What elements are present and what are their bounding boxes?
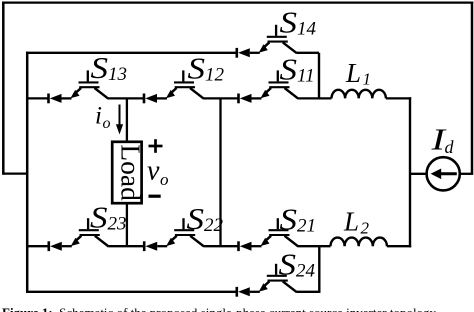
svg-text:L: L — [345, 58, 361, 88]
switch S12 — [144, 70, 204, 103]
wire: S14 drop to row 1 — [318, 53, 320, 100]
inductor L1 — [332, 90, 386, 99]
svg-text:i: i — [95, 103, 102, 130]
switch S13 — [49, 70, 109, 103]
inductor L2 — [331, 238, 387, 247]
wire: load top drop — [126, 98, 128, 141]
svg-text:13: 13 — [108, 64, 127, 85]
wire: middle vertical bus — [219, 98, 221, 246]
current source arrow — [431, 169, 457, 180]
wire: right outer vertical — [471, 2, 474, 174]
io arrow — [116, 105, 123, 135]
wire: S24 collector to corner — [296, 291, 319, 293]
switch S14 — [237, 25, 297, 58]
svg-text:Load: Load — [115, 144, 146, 201]
wire: top outer rail — [2, 1, 473, 3]
svg-text:2: 2 — [361, 219, 370, 238]
wire: L1 to right corner — [386, 97, 411, 99]
current source Id circle — [427, 157, 460, 190]
plus sign — [149, 139, 163, 153]
wire: S14 feed rail — [26, 52, 237, 54]
svg-text:S: S — [91, 50, 109, 85]
svg-text:S: S — [90, 200, 108, 235]
switch S21 — [239, 218, 299, 251]
switch S22 — [144, 218, 204, 251]
wire: left outer vertical — [2, 2, 5, 175]
label L1 — [345, 58, 371, 89]
svg-text:S: S — [280, 52, 298, 87]
wire: row2 S23 to S22 — [108, 245, 144, 247]
svg-text:S: S — [279, 247, 297, 282]
svg-text:14: 14 — [297, 19, 317, 40]
wire: L2 to right corner — [387, 245, 411, 247]
wire: S24 riser to row 2 — [318, 245, 320, 293]
wire: row1 S11 to L1 — [298, 97, 332, 99]
svg-text:d: d — [445, 137, 455, 157]
minus sign — [149, 195, 161, 198]
label L2 — [343, 207, 370, 238]
svg-text:21: 21 — [297, 216, 316, 237]
wire: row2 S21 to L2 — [298, 245, 331, 247]
svg-text:o: o — [103, 115, 111, 132]
label S23 — [90, 200, 127, 235]
load box — [112, 142, 141, 203]
wire: row1 S13 to S12 — [108, 97, 144, 99]
wire: right mid vertical (L1/L2/Id node) — [409, 97, 411, 247]
label Id — [430, 122, 454, 157]
svg-text:22: 22 — [204, 215, 224, 236]
wire: row2 S22 to S21 — [204, 245, 239, 247]
wire: row1 S12 to S11 — [204, 97, 239, 99]
switch S11 — [239, 70, 299, 103]
svg-text:11: 11 — [297, 66, 315, 87]
svg-text:23: 23 — [108, 214, 127, 235]
wire: row1 bus to S13 — [26, 97, 49, 99]
wire: Id right lead — [460, 173, 473, 175]
svg-text:24: 24 — [296, 261, 316, 282]
label io — [95, 103, 111, 133]
wire: row2 bus to S23 — [26, 245, 49, 247]
svg-text:12: 12 — [205, 65, 225, 86]
svg-text:L: L — [343, 207, 359, 237]
svg-text:S: S — [280, 202, 298, 237]
label S21 — [280, 202, 317, 237]
svg-text:v: v — [147, 156, 160, 187]
figure caption (clipped at bottom edge) — [2, 306, 472, 312]
svg-text:o: o — [160, 170, 169, 189]
svg-text:S: S — [188, 51, 206, 86]
label S13 — [91, 50, 128, 85]
label S24 — [279, 247, 316, 282]
svg-text:1: 1 — [363, 70, 372, 89]
wire: S14 collector to corner — [296, 52, 319, 54]
wire: outer-to-bus connector — [3, 172, 27, 174]
label S11 — [280, 52, 315, 87]
label S22 — [187, 201, 224, 236]
wire: Id left lead — [410, 173, 427, 175]
svg-text:S: S — [280, 5, 298, 40]
label S12 — [188, 51, 225, 86]
switch S23 — [49, 218, 109, 251]
label S14 — [280, 5, 317, 40]
svg-text:S: S — [187, 201, 205, 236]
wire: load bottom drop — [126, 203, 128, 246]
label vo — [147, 156, 169, 190]
wire: left vertical bus — [26, 52, 29, 292]
wire: S24 bottom rail — [26, 291, 237, 293]
switch S24 — [237, 264, 297, 297]
